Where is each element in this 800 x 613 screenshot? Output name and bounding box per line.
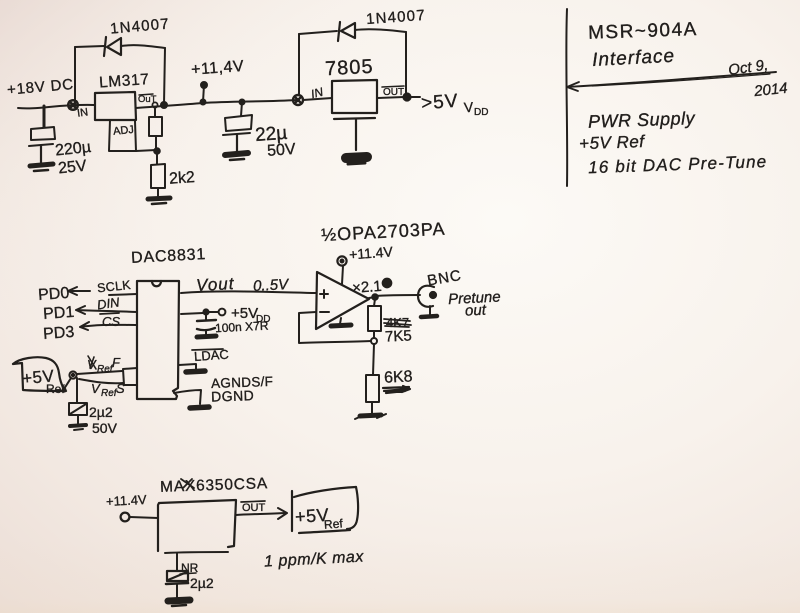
junction node feedback R3 R4 [371,338,377,344]
value label 4K7 crossed out [384,315,411,330]
pin label DIN [96,294,121,312]
value label 6K8 [384,368,413,386]
label 1/2 OPA2703PA [321,219,446,245]
svg-text:V: V [463,99,474,116]
wire V+ to op-amp body [342,266,343,284]
wire ref box to terminal [61,378,71,393]
wire D1 top right segment [121,45,165,48]
label Pretune out [448,288,501,319]
pin NR rail below MAX [165,552,228,553]
svg-text:2µ2: 2µ2 [89,404,113,420]
capacitor C2 22u plates [223,115,252,152]
net label +18VDC [6,76,74,99]
pin NR stub [176,553,178,570]
wire terminal to MAX IN [130,517,158,518]
value label 50V [267,141,297,160]
svg-text:IN: IN [76,106,89,119]
terminal VREF [69,371,76,378]
svg-text:PWR Supply: PWR Supply [588,108,696,132]
wire D2 right leg [405,32,407,96]
label 1 ppm/K max [264,548,365,570]
pin label OUT of LM317 [138,94,157,105]
wire 7805 OUT to node [377,97,404,98]
value label 220u [54,139,92,160]
gain label x2.1 [352,278,383,297]
pin label DGND [211,387,255,404]
pin label CS with overline [100,313,120,329]
IC U5 MAX6350 body [158,500,236,551]
svg-text:OUT: OUT [242,502,266,514]
label BNC [426,267,463,290]
value label 100n X7R [215,319,269,336]
svg-text:×2.1: ×2.1 [352,278,383,297]
label DAC8831 [131,246,207,267]
svg-text:6K8: 6K8 [384,368,413,386]
ground of R2 [148,198,170,204]
net box +5V Ref [292,487,358,533]
wire D2 left leg [298,34,300,95]
svg-text:PD0: PD0 [38,285,70,304]
junction dot C2 top [240,100,245,117]
connector J1 BNC [418,286,436,307]
capacitor C3 100n [197,314,216,335]
svg-text:Vout: Vout [196,274,236,295]
capacitor C1 220u plates [29,127,55,163]
terminal +5VDD [219,309,226,316]
scribble crossed-out value below 6K8 [383,386,410,393]
date 2014 [752,80,788,101]
date Oct 9, [727,57,769,79]
svg-text:LM317: LM317 [99,71,150,91]
pin label OUT of MAX with overline [241,501,266,514]
label PWR Supply [588,108,696,132]
wire D1 left leg [74,47,76,104]
op-amp plus input sign [320,290,328,298]
value label 50V of C4 [92,420,118,436]
label 1N4007 for D2 [366,7,427,28]
wire VREF S [79,379,123,383]
ground of C4 [70,425,86,430]
ground of C3 [197,336,216,337]
svg-text:+11.4V: +11.4V [349,243,394,262]
svg-text:DGND: DGND [211,387,255,404]
label +5V of ref box [21,366,55,388]
resistor R1 divider top [149,108,162,150]
value label 2k2 [169,169,196,188]
regulator ADJ pin box [109,120,136,151]
svg-text:50V: 50V [92,420,118,436]
junction dot op-amp output [372,294,378,300]
node input junction crossed circle [68,100,78,110]
op-amp minus input sign [320,311,329,313]
value label 25V [57,157,87,177]
pin wire DIN with arrow to PD1 [76,306,137,314]
label MSR~904A [588,19,698,44]
value label 2u2 [89,404,113,420]
ground of R4 [355,414,386,419]
svg-text:DD: DD [474,107,488,118]
op-amp U4 body [316,272,369,329]
net label PD1 [43,304,75,323]
regulator U2 7805 body [332,80,377,119]
label +5V Ref [579,132,647,153]
junction dot 7805 OUT and D2 [403,93,410,100]
junction dot ADJ node [154,148,160,154]
svg-text:2014: 2014 [752,80,788,101]
pin label AGNDS/F [211,374,274,391]
pin wire LDAC [179,364,196,370]
wire ADJ box to divider node [136,150,156,151]
node stub +11.4V [201,82,207,102]
ground of BNC shell [421,306,437,317]
svg-text:+5V Ref: +5V Ref [579,132,647,153]
border horizontal line with left arrowhead [567,72,776,91]
pin label VREF F [87,355,121,375]
svg-text:100n X7R: 100n X7R [215,319,269,336]
svg-text:Interface: Interface [592,46,676,71]
label Interface [592,46,676,71]
junction small circle R1 top [152,102,157,107]
svg-text:CS: CS [102,314,120,329]
label 7805 [325,56,375,81]
label Ref of ref box [46,382,65,396]
svg-text:MSR~904A: MSR~904A [588,19,698,44]
pin label ADJ [113,124,135,138]
pin label IN of LM317 [76,106,89,119]
net label +11.4V max input [106,492,148,509]
svg-text:Ref: Ref [324,516,344,531]
svg-text:7K5: 7K5 [385,327,413,345]
border vertical line title block [565,9,568,186]
svg-text:7805: 7805 [325,56,375,81]
pin wire CS with arrow to PD3 [80,322,137,330]
capacitor C1 220u lead from rail [43,106,46,127]
net label 0..5V [253,276,291,295]
wire input rail from +18VDC [18,105,94,109]
net label +11.4V op-amp supply [349,243,394,262]
wire R3 to R4 [373,344,374,375]
wire stub to +5V label [411,96,420,98]
wire VREF F [77,371,122,374]
source box +5V Ref [13,357,66,391]
pin label LDAC with overline [192,347,229,364]
wire D2 top right segment [355,29,406,32]
ground of op-amp V- [331,318,351,326]
pin tab VREF [123,368,137,385]
pin wire +5VDD [181,312,218,314]
label LM317 [99,71,150,91]
junction dot C3 top [203,309,208,314]
resistor R4 6K8 [366,375,379,414]
capacitor C5 2u2 NR [166,571,188,597]
IC U3 DAC8831 body [137,281,179,399]
pin wire SCLK [109,294,137,295]
value label 2u2 of C5 [190,575,214,591]
pin wire AGND DGND [174,390,201,404]
wire OUT arrow to ref box [236,508,287,519]
ground of 7805 [346,119,367,164]
net label 5V VDD [420,91,488,118]
wire output to BNC [369,295,420,298]
svg-text:ADJ: ADJ [113,124,135,138]
ground of AGND DGND [190,407,209,408]
svg-text:0..5V: 0..5V [253,276,291,295]
net label +5V DD [231,305,270,325]
value label 7K5 [385,327,413,345]
ground of C2 [225,153,248,160]
capacitor C4 2u2 [69,378,87,424]
pin label OUT of 7805 [382,86,404,98]
node 7805 IN crossed circle [293,95,303,105]
svg-text:DIN: DIN [96,294,121,312]
pin label IN of 7805 [309,85,324,102]
junction dot D1 right on OUT rail [161,102,167,108]
signal arrow PD0 [68,287,90,295]
diode D2 1N4007 [338,22,355,41]
svg-text:2µ2: 2µ2 [190,575,214,591]
terminal op-amp V+ [337,256,346,265]
svg-text:2k2: 2k2 [169,169,196,188]
ink blob after gain [382,278,391,287]
label Ref of ref net [324,516,344,531]
terminal max input [121,513,130,522]
ground of LDAC [186,371,205,372]
value label 22u [254,123,288,146]
wire D2 top left segment [299,31,337,34]
pin label NR [180,561,199,575]
wire LM317 OUT rail to 7805 [136,100,297,108]
pin label SCLK [96,278,131,295]
resistor R2 2k2 [151,151,165,197]
net label Vout [196,274,236,295]
regulator U1 LM317 body [95,92,136,120]
svg-text:50V: 50V [267,141,297,160]
wire feedback loop [299,312,371,343]
junction dot +11.4V on rail [201,100,206,105]
svg-text:V: V [91,381,101,396]
pin label VREF S [91,381,125,399]
label MAX6350CSA [160,475,268,496]
label 1N4007 for D1 [110,15,171,37]
label 16 bit DAC Pre-Tune [588,152,768,177]
svg-text:+11.4V: +11.4V [106,492,148,509]
svg-text:out: out [465,302,488,320]
svg-text:25V: 25V [57,157,87,177]
wire node to 7805 IN [303,98,332,100]
ground of C5 [168,600,190,606]
svg-text:>5V: >5V [420,91,459,115]
net label PD3 [43,324,75,343]
svg-text:F: F [112,355,121,370]
pin wire Vout to op-amp input [181,291,316,293]
svg-text:PD3: PD3 [43,324,75,343]
ground of C1 [30,164,53,171]
net label +11,4V [191,58,245,79]
wire D1 right leg [164,48,165,104]
resistor R3 7K5 [368,299,381,338]
svg-text:PD1: PD1 [43,304,75,323]
diode D1 1N4007 [104,37,121,56]
wire D1 top left segment [75,46,104,47]
net label PD0 [38,285,70,304]
label +5V of ref net [294,505,329,527]
